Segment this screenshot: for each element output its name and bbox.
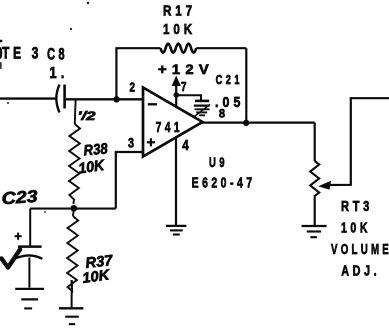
- partial glyph sliver at left edge: [0, 48, 1, 59]
- svg-text:7: 7: [181, 80, 187, 94]
- svg-text:C8: C8: [47, 44, 68, 63]
- wire op-amp output: [203, 121, 315, 123]
- ground below RT3: [302, 226, 327, 237]
- ground below C23 (hand drawn): [15, 289, 44, 309]
- scan specks: [0, 2, 89, 213]
- op-amp minus sign: [148, 103, 157, 105]
- svg-text:R17: R17: [163, 2, 196, 19]
- svg-text:C23: C23: [1, 187, 39, 209]
- svg-text:3: 3: [128, 135, 134, 150]
- wire feedback drop to output node: [245, 48, 247, 123]
- ground below C21: [194, 104, 210, 116]
- svg-text:10K: 10K: [163, 21, 196, 38]
- wire wiper to right edge: [328, 98, 389, 185]
- ground below R37: [59, 308, 83, 324]
- wire RT3 to ground: [314, 200, 316, 226]
- wire pin7 to C21: [176, 95, 201, 100]
- wire input left segment: [0, 97, 56, 99]
- svg-text:'/2: '/2: [78, 109, 96, 123]
- +12V arrow head: [172, 76, 181, 87]
- svg-text:TE 3: TE 3: [2, 44, 42, 63]
- pin 7 junction dot: [173, 92, 179, 98]
- op-amp plus sign: [147, 138, 155, 146]
- capacitor C21 plates: [194, 101, 210, 106]
- wire C8 to inverting-input node: [65, 98, 143, 100]
- wire feedback top right segment: [196, 47, 246, 49]
- node B junction dot (R38/R37/C23): [70, 205, 77, 212]
- checkmark annotation: [2, 250, 21, 268]
- svg-text:E620-47: E620-47: [192, 174, 256, 191]
- wire junction row (C23 to pin3 drop): [30, 208, 116, 210]
- wire output corner down to RT3: [314, 123, 316, 161]
- op-amp U1 741 triangle: [143, 88, 203, 157]
- C23 plates: [13, 247, 43, 260]
- capacitor C8: [56, 85, 64, 113]
- RT3 wiper arrow: [318, 181, 331, 190]
- svg-text:R38: R38: [83, 140, 109, 159]
- ground below pin 4: [166, 226, 187, 235]
- svg-text:2: 2: [130, 81, 136, 95]
- svg-text:VOLUME: VOLUME: [331, 241, 389, 258]
- svg-text:C21: C21: [216, 72, 244, 87]
- pin 7 stub into op-amp: [175, 85, 177, 109]
- svg-text:ADJ.: ADJ.: [341, 263, 380, 280]
- C23 plus sign: [15, 233, 22, 240]
- pin 3 wire from op-amp: [116, 152, 143, 209]
- resistor R38 (hand drawn) top lead: [74, 100, 77, 125]
- resistor R37 (hand drawn) top lead: [72, 212, 75, 217]
- svg-text:RT3: RT3: [341, 198, 373, 215]
- capacitor C23 (hand drawn) top lead: [29, 209, 31, 246]
- svg-text:10K: 10K: [341, 220, 371, 237]
- potentiometer RT3 element: [310, 161, 319, 200]
- resistor R17: [161, 44, 197, 53]
- label NOTE 3 C8 (cut at left edge): [2, 44, 68, 64]
- wire feedback top left segment: [115, 47, 160, 49]
- C23 bottom lead: [28, 258, 30, 288]
- svg-text:8: 8: [219, 109, 226, 121]
- svg-text:U9: U9: [209, 154, 228, 170]
- resistor R38 body: [69, 124, 80, 204]
- node A junction dot (inverting input / feedback): [113, 96, 119, 102]
- pin 4 wire down from op-amp: [175, 138, 177, 226]
- R37 bottom lead: [71, 280, 73, 308]
- svg-text:4: 4: [182, 137, 189, 154]
- resistor R37 body: [67, 216, 78, 291]
- output node junction dot: [243, 120, 249, 126]
- svg-text:741: 741: [156, 119, 184, 136]
- svg-text:+12V: +12V: [158, 61, 214, 77]
- svg-text:1.: 1.: [49, 65, 68, 82]
- wire feedback riser up from node A: [115, 48, 117, 99]
